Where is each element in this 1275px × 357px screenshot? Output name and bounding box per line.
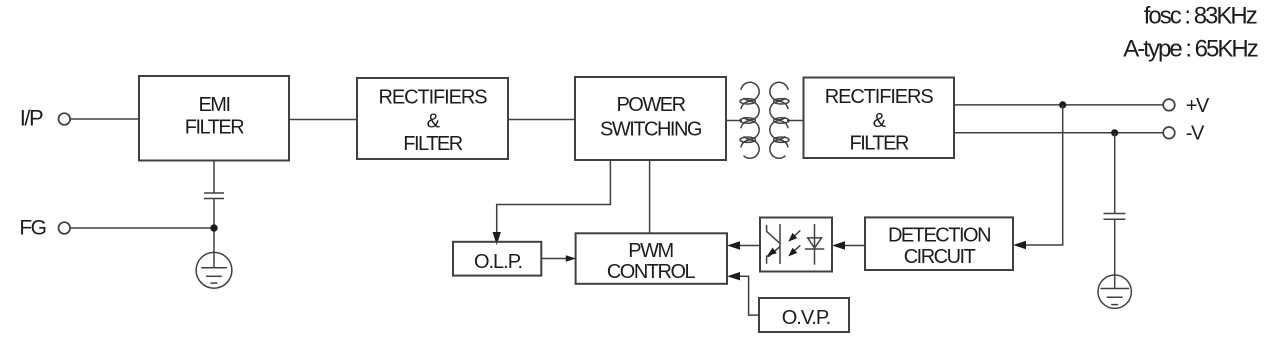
svg-text:FG: FG bbox=[19, 216, 45, 239]
svg-text:CONTROL: CONTROL bbox=[607, 261, 696, 283]
capacitor C2 bbox=[1104, 214, 1126, 220]
ground symbol (protective earth) left bbox=[196, 252, 232, 288]
wire -V junction down to capacitor C2 bbox=[1114, 133, 1116, 214]
terminal I/P bbox=[59, 113, 71, 125]
wire EMI FILTER to RECTIFIERS & FILTER 1 bbox=[289, 119, 357, 121]
svg-text:SWITCHING: SWITCHING bbox=[600, 118, 702, 140]
junction dot on +V line bbox=[1059, 101, 1066, 108]
block PWM CONTROL bbox=[576, 233, 727, 283]
arrowhead into PWM CONTROL right edge (lower) bbox=[727, 272, 740, 280]
svg-text:FILTER: FILTER bbox=[185, 117, 244, 139]
block O.L.P. bbox=[453, 242, 541, 276]
svg-text:O.L.P.: O.L.P. bbox=[474, 251, 522, 273]
wire transformer secondary to RECTIFIERS & FILTER 2 bbox=[787, 120, 804, 122]
svg-text:I/P: I/P bbox=[20, 106, 43, 131]
svg-text:RECTIFIERS: RECTIFIERS bbox=[825, 86, 934, 108]
svg-text:fosc : 83KHz: fosc : 83KHz bbox=[1144, 3, 1257, 30]
block POWER SWITCHING bbox=[575, 77, 726, 160]
block EMI FILTER bbox=[139, 76, 289, 161]
svg-text:+V: +V bbox=[1186, 95, 1210, 117]
svg-text:FILTER: FILTER bbox=[849, 133, 908, 155]
optocoupler light arrows bbox=[788, 231, 800, 257]
terminal +V bbox=[1163, 99, 1175, 111]
svg-text:PWM: PWM bbox=[628, 240, 673, 262]
optocoupler U1 box bbox=[760, 218, 832, 272]
block O.V.P. bbox=[759, 298, 849, 332]
capacitor C1 bbox=[204, 193, 224, 199]
wire capacitor C1 to ground bbox=[213, 199, 215, 253]
wire POWER SWITCHING down-left to O.L.P. bbox=[497, 160, 611, 232]
svg-text:A-type : 65KHz: A-type : 65KHz bbox=[1123, 36, 1257, 63]
wire optocoupler to PWM CONTROL bbox=[740, 245, 760, 247]
svg-text:-V: -V bbox=[1186, 123, 1205, 145]
wire EMI FILTER down to capacitor C1 bbox=[213, 161, 215, 194]
wire POWER SWITCHING to transformer primary bbox=[726, 120, 742, 122]
junction dot on -V line bbox=[1111, 129, 1118, 136]
junction dot FG node bbox=[210, 224, 217, 231]
block RECTIFIERS & FILTER (primary) bbox=[357, 78, 508, 159]
block DETECTION CIRCUIT bbox=[865, 217, 1013, 270]
wire capacitor C2 to ground bbox=[1114, 219, 1116, 275]
svg-text:POWER: POWER bbox=[616, 94, 685, 116]
ground symbol (protective earth) right bbox=[1098, 275, 1131, 308]
wire RECTIFIERS & FILTER 1 to POWER SWITCHING bbox=[508, 119, 575, 121]
arrowhead into PWM CONTROL left edge bbox=[566, 255, 576, 262]
wire -V output bbox=[954, 132, 1164, 134]
svg-text:RECTIFIERS: RECTIFIERS bbox=[379, 87, 488, 109]
wire O.V.P. to PWM CONTROL bbox=[740, 276, 759, 315]
wire DETECTION CIRCUIT to optocoupler bbox=[845, 245, 865, 247]
svg-text:EMI: EMI bbox=[198, 94, 229, 116]
wire +V junction down to DETECTION CIRCUIT bbox=[1026, 105, 1063, 245]
transformer T1 primary winding bbox=[740, 82, 759, 158]
block RECTIFIERS & FILTER (secondary) bbox=[804, 78, 955, 159]
wire +V output bbox=[954, 104, 1164, 106]
wire POWER SWITCHING down to PWM CONTROL bbox=[649, 160, 651, 233]
arrowhead into PWM CONTROL right edge (upper) bbox=[727, 241, 740, 249]
optocoupler LED D1 bbox=[805, 224, 824, 265]
arrowhead into optocoupler right edge bbox=[832, 241, 845, 249]
svg-text:DETECTION: DETECTION bbox=[888, 225, 990, 247]
svg-text:O.V.P.: O.V.P. bbox=[782, 307, 831, 329]
wire I/P to EMI FILTER bbox=[70, 118, 139, 120]
arrowhead into O.L.P. top bbox=[493, 232, 501, 245]
terminal -V bbox=[1163, 127, 1175, 139]
wire FG to junction bbox=[70, 227, 214, 229]
wire O.L.P. to PWM CONTROL bbox=[541, 258, 566, 260]
svg-text:CIRCUIT: CIRCUIT bbox=[904, 246, 976, 268]
arrowhead into DETECTION CIRCUIT right edge bbox=[1013, 241, 1026, 249]
transformer T1 secondary winding bbox=[770, 82, 789, 158]
svg-text:FILTER: FILTER bbox=[403, 133, 462, 155]
terminal FG bbox=[59, 222, 71, 234]
optocoupler phototransistor bbox=[767, 224, 780, 264]
